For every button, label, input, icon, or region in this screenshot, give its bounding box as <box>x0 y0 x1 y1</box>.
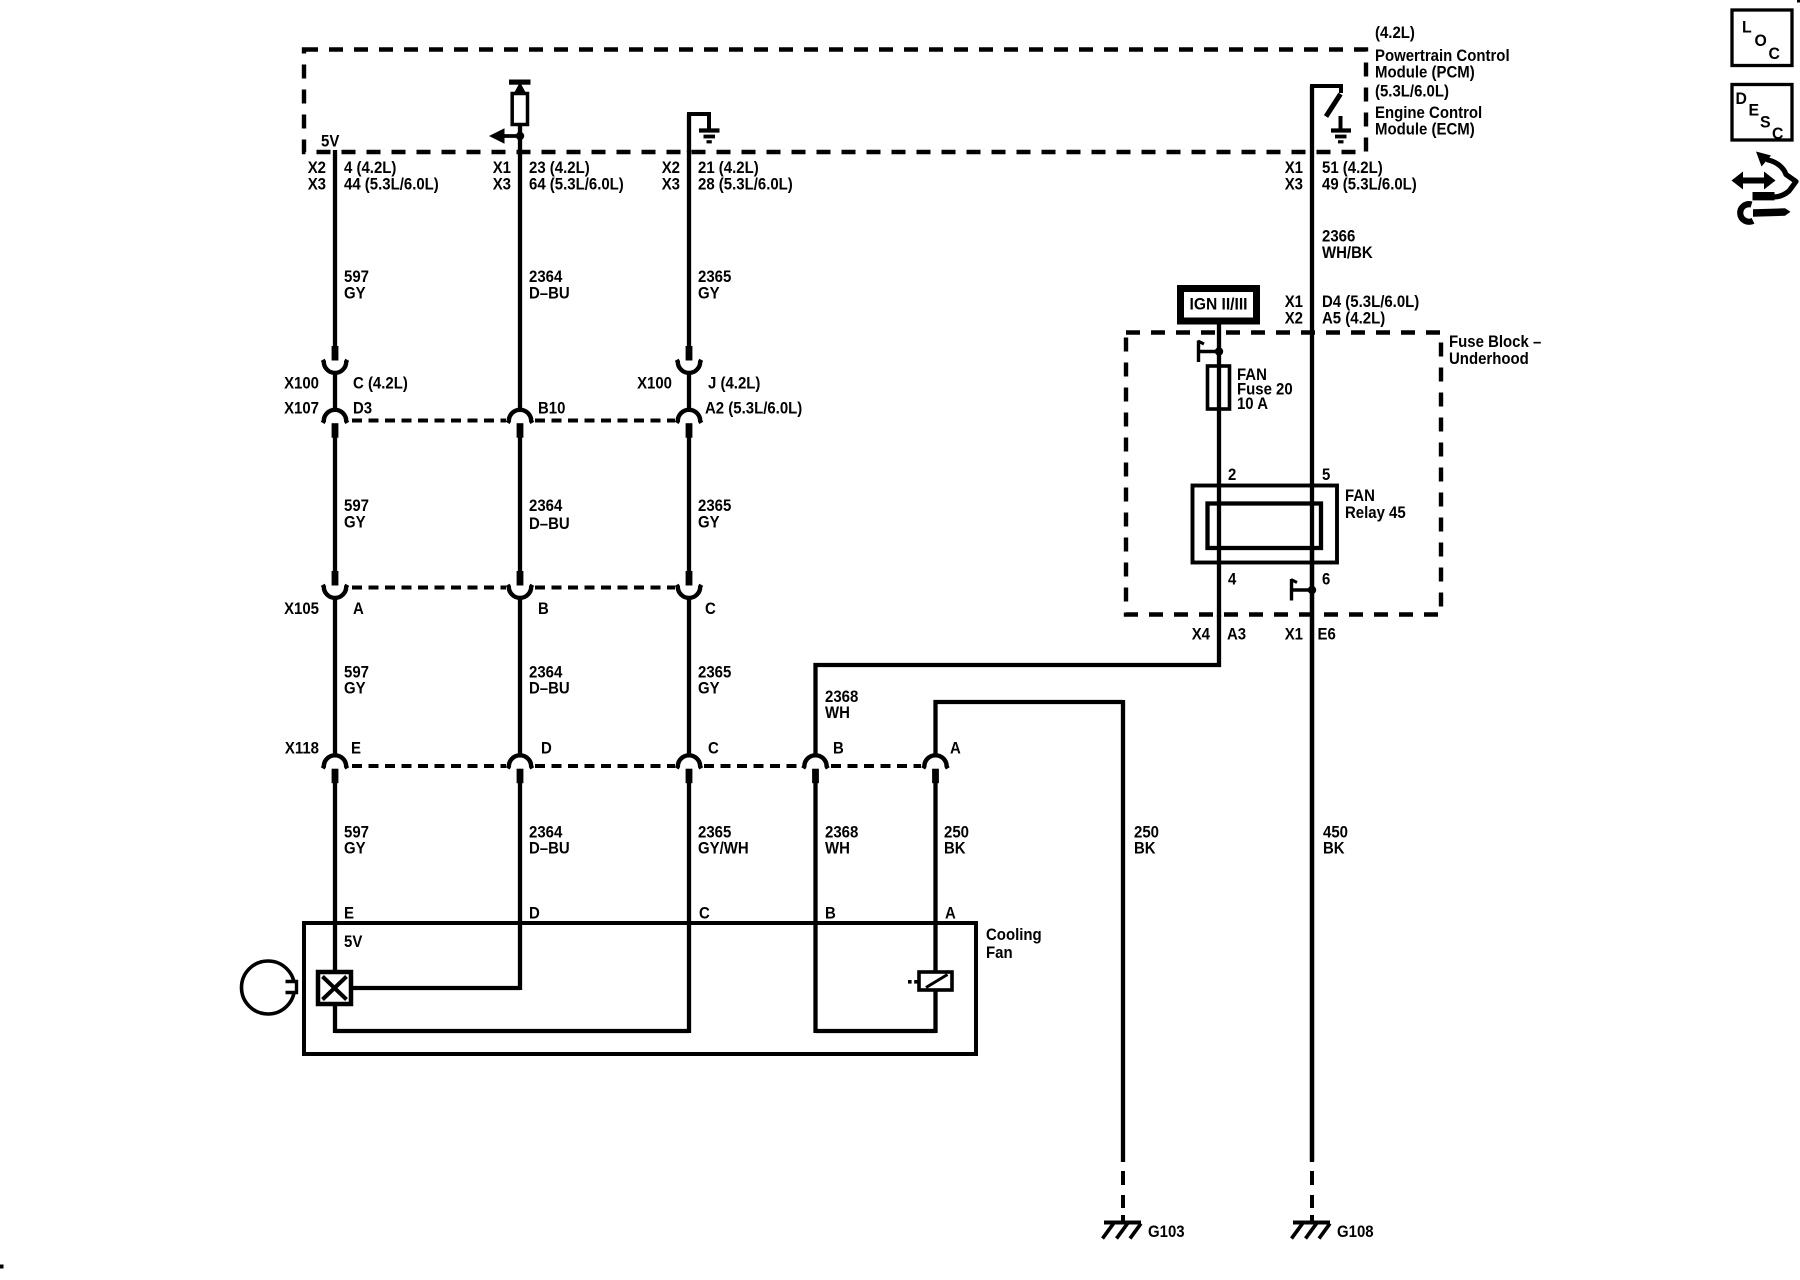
connector X100 pin J <box>686 346 693 361</box>
wire thermistor to pin B bottom run <box>933 990 937 1033</box>
connector X118 pin A <box>923 755 948 768</box>
svg-text:64 (5.3L/6.0L): 64 (5.3L/6.0L) <box>529 175 624 194</box>
fan control module (X box) <box>333 925 337 972</box>
wire IGN feed to fuse <box>1217 324 1221 366</box>
connector X100 pin C <box>332 346 339 361</box>
svg-text:Underhood: Underhood <box>1449 349 1529 368</box>
connector X105 pin A <box>332 571 339 586</box>
svg-text:B: B <box>833 739 844 758</box>
svg-text:5V: 5V <box>344 932 363 951</box>
svg-text:GY: GY <box>344 284 366 303</box>
connector X105 pin B <box>517 571 524 586</box>
svg-text:BK: BK <box>1134 839 1156 858</box>
svg-text:E6: E6 <box>1318 625 1336 644</box>
svg-text:GY: GY <box>344 839 366 858</box>
svg-text:2364: 2364 <box>529 496 563 515</box>
svg-text:G103: G103 <box>1148 1222 1185 1241</box>
svg-text:X1: X1 <box>1285 625 1303 644</box>
svg-text:GY: GY <box>698 284 720 303</box>
svg-text:X3: X3 <box>662 175 680 194</box>
svg-text:C: C <box>705 599 716 618</box>
connector X105 harness dashed line <box>352 586 506 590</box>
svg-text:X3: X3 <box>308 175 326 194</box>
wire 2364 D-BU segment X107 to X105 <box>518 437 522 572</box>
ground G103 <box>1104 1221 1141 1225</box>
svg-text:IGN II/III: IGN II/III <box>1190 295 1248 314</box>
svg-text:GY/WH: GY/WH <box>698 839 749 858</box>
connector X118 pin B <box>803 755 828 768</box>
wire fuse to relay pin 2 through coil to pin 4 <box>1217 409 1221 617</box>
Fuse Block - Underhood dashed box <box>1126 333 1441 615</box>
wire 2364 D-BU segment X118 to cooling fan <box>518 782 522 925</box>
svg-text:WH: WH <box>825 839 850 858</box>
svg-text:GY: GY <box>698 679 720 698</box>
svg-text:44 (5.3L/6.0L): 44 (5.3L/6.0L) <box>344 175 439 194</box>
svg-text:D3: D3 <box>353 399 372 418</box>
svg-text:2: 2 <box>1228 465 1236 484</box>
wire 2368 WH from relay pin 4: horizontal run <box>816 615 1220 755</box>
svg-text:A: A <box>945 904 956 923</box>
junction node on signal wire <box>516 132 524 140</box>
svg-text:A5 (4.2L): A5 (4.2L) <box>1322 309 1385 328</box>
svg-text:Module (PCM): Module (PCM) <box>1375 63 1475 82</box>
connector X107 pin A2 <box>677 410 702 423</box>
page corner mark top-right <box>1797 0 1800 3</box>
svg-text:A2 (5.3L/6.0L): A2 (5.3L/6.0L) <box>705 399 802 418</box>
terminal (relay control output E6) <box>1308 586 1316 594</box>
svg-text:WH: WH <box>825 703 850 722</box>
low-side driver switch (PCM fan relay control) <box>1310 86 1314 152</box>
svg-text:GY: GY <box>344 513 366 532</box>
svg-text:D–BU: D–BU <box>529 514 570 533</box>
svg-text:Relay 45: Relay 45 <box>1345 503 1406 522</box>
wire 597 GY segment X118 to cooling fan <box>333 782 337 925</box>
ground symbol (PCM internal, sensor low reference) <box>687 114 691 152</box>
svg-text:BK: BK <box>944 839 966 858</box>
svg-text:X3: X3 <box>493 175 511 194</box>
wire 2365 GY segment PCM to X100 <box>687 150 691 347</box>
wire 597 GY segment PCM to X100 <box>333 150 337 347</box>
thermistor (fan speed sensor) <box>933 925 937 972</box>
svg-text:E: E <box>351 739 361 758</box>
terminal (fuse block ignition feed) <box>1215 347 1223 355</box>
PCM / ECM module dashed box <box>304 50 1366 153</box>
svg-text:X105: X105 <box>284 599 319 618</box>
Cooling Fan component box <box>304 923 976 1054</box>
svg-text:Module (ECM): Module (ECM) <box>1375 120 1475 139</box>
svg-text:GY: GY <box>344 679 366 698</box>
svg-text:X3: X3 <box>1285 175 1303 194</box>
svg-text:Fan: Fan <box>986 943 1013 962</box>
svg-text:X2: X2 <box>1285 309 1303 328</box>
signal tap arrow (to A/D converter) <box>493 134 520 138</box>
svg-text:D: D <box>541 739 552 758</box>
svg-text:D: D <box>1736 89 1747 108</box>
svg-text:C: C <box>1772 124 1783 143</box>
wire 2368 WH segment X118 to cooling fan <box>813 782 817 925</box>
connector X107 harness dashed line <box>352 419 506 423</box>
connector X105 pin C <box>686 571 693 586</box>
svg-text:X107: X107 <box>284 399 319 418</box>
wire 597 GY segment X107 to X105 <box>333 437 337 572</box>
wire 2364 D-BU segment PCM to X107 <box>518 150 522 410</box>
fan motor circle <box>242 961 295 1014</box>
wire 597 GY segment X100 to X107 <box>333 373 337 410</box>
svg-text:D–BU: D–BU <box>529 679 570 698</box>
svg-text:WH/BK: WH/BK <box>1322 243 1373 262</box>
svg-text:X100: X100 <box>637 374 672 393</box>
svg-text:A3: A3 <box>1227 625 1246 644</box>
service/repair icon (arrow + wrench) <box>1732 152 1797 222</box>
svg-text:6: 6 <box>1322 570 1330 589</box>
svg-text:B10: B10 <box>538 399 565 418</box>
svg-text:A: A <box>353 599 364 618</box>
IGN II/III feed box <box>1181 289 1257 322</box>
relay FAN Relay 45 outer box <box>1193 486 1338 563</box>
connector X118 harness dashed line <box>352 764 506 768</box>
svg-text:X118: X118 <box>285 739 319 758</box>
svg-text:C: C <box>699 904 710 923</box>
wire 2365 GY segment X105 to X118 <box>687 598 691 755</box>
connector X118 pin C <box>677 755 702 768</box>
connector X118 pin E <box>323 755 348 768</box>
wire 597 GY segment X105 to X118 <box>333 598 337 755</box>
connector X107 pin D3 <box>323 410 348 423</box>
svg-text:D: D <box>529 904 540 923</box>
wire relay pin 6 to ground G108 <box>1310 546 1314 1162</box>
svg-text:B: B <box>825 904 836 923</box>
svg-text:(4.2L): (4.2L) <box>1375 23 1415 42</box>
wire 250 BK drop to ground G103 <box>1121 700 1125 1162</box>
svg-text:5: 5 <box>1322 465 1330 484</box>
wire from resistor to PCM pin 23/64 <box>518 125 522 153</box>
wire 2365 GY segment X107 to X105 <box>687 437 691 572</box>
svg-text:28 (5.3L/6.0L): 28 (5.3L/6.0L) <box>698 175 793 194</box>
wire 2365 GY/WH segment X118 to cooling fan <box>687 782 691 925</box>
svg-text:L: L <box>1742 18 1752 37</box>
relay coil box <box>1208 504 1322 549</box>
svg-text:Cooling: Cooling <box>986 925 1042 944</box>
resistor (PCM internal pull-up on sensor signal) <box>509 80 531 85</box>
svg-text:C (4.2L): C (4.2L) <box>353 374 408 393</box>
svg-text:G108: G108 <box>1337 1222 1374 1241</box>
svg-text:A: A <box>950 739 961 758</box>
wire 250 BK horizontal run to G103 drop <box>936 702 1124 755</box>
svg-text:C: C <box>708 739 719 758</box>
svg-text:10 A: 10 A <box>1237 394 1268 413</box>
svg-text:5V: 5V <box>321 132 340 151</box>
wire 250 BK segment X118 to cooling fan <box>933 782 937 925</box>
svg-text:D–BU: D–BU <box>529 839 570 858</box>
svg-text:X100: X100 <box>284 374 319 393</box>
svg-text:S: S <box>1760 113 1771 132</box>
svg-text:(5.3L/6.0L): (5.3L/6.0L) <box>1375 82 1449 101</box>
svg-text:C: C <box>1769 44 1780 63</box>
fuse FAN Fuse 20 10A <box>1208 366 1230 409</box>
LOC legend box <box>1732 10 1792 66</box>
wire X box to pin D <box>351 986 520 990</box>
ground symbol (PCM driver emitter) <box>1339 116 1343 129</box>
svg-text:J (4.2L): J (4.2L) <box>708 374 760 393</box>
wire 2365 GY segment X100 to X107 <box>687 373 691 410</box>
svg-text:BK: BK <box>1323 839 1345 858</box>
wire X box bottom to pin C <box>333 1004 337 1033</box>
main wire 2366 WH/BK then 450 BK (PCM control / ground) <box>1310 152 1314 1161</box>
page mark left edge <box>0 1265 4 1269</box>
svg-text:E: E <box>1749 101 1760 120</box>
svg-text:B: B <box>538 599 549 618</box>
wire 2364 D-BU segment X105 to X118 <box>518 598 522 755</box>
connector X118 pin D <box>508 755 533 768</box>
svg-text:D–BU: D–BU <box>529 284 570 303</box>
DESC legend box <box>1732 85 1792 141</box>
svg-text:O: O <box>1755 31 1767 50</box>
svg-text:E: E <box>344 904 354 923</box>
svg-text:X4: X4 <box>1192 625 1211 644</box>
ground G108 <box>1293 1221 1330 1225</box>
svg-text:GY: GY <box>698 513 720 532</box>
svg-text:49 (5.3L/6.0L): 49 (5.3L/6.0L) <box>1322 175 1417 194</box>
svg-text:4: 4 <box>1228 570 1237 589</box>
connector X107 pin B10 <box>508 410 533 423</box>
